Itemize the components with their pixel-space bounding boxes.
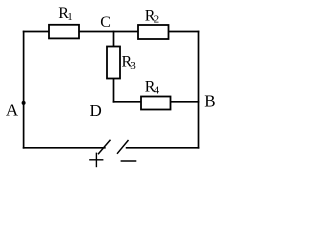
wire D to B horizontal: [114, 101, 199, 103]
resistor R4: [141, 97, 171, 110]
battery negative terminal lead (diagonal): [117, 140, 129, 154]
wire left vertical: [23, 32, 25, 148]
wire middle vertical C to D: [113, 32, 115, 102]
svg-text:1: 1: [67, 11, 73, 23]
battery plus sign: [89, 153, 103, 168]
battery positive terminal lead (diagonal): [98, 140, 111, 154]
svg-text:C: C: [100, 14, 111, 31]
svg-text:3: 3: [130, 60, 136, 72]
svg-text:A: A: [6, 101, 19, 120]
node A junction dot: [22, 101, 26, 105]
resistor R3: [107, 47, 120, 79]
svg-text:4: 4: [154, 85, 160, 97]
resistor R2: [138, 25, 169, 39]
svg-text:2: 2: [154, 14, 160, 26]
svg-text:D: D: [90, 101, 102, 120]
wire right vertical: [198, 32, 200, 148]
svg-text:B: B: [204, 92, 215, 111]
resistor R1: [49, 25, 79, 39]
wire bottom left: [24, 147, 105, 149]
wire top: left corner to right corner: [24, 31, 199, 33]
battery minus sign: [121, 160, 137, 162]
wire bottom right: [127, 147, 199, 149]
